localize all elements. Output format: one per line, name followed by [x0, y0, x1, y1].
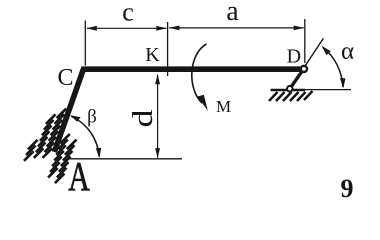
extension line at K: [167, 22, 169, 76]
svg-text:a: a: [226, 0, 239, 27]
svg-text:K: K: [145, 44, 160, 66]
svg-text:d: d: [127, 110, 158, 128]
alpha arc: [322, 46, 346, 89]
beta arc: [70, 115, 101, 158]
hatched wall at A (left band): [24, 109, 66, 161]
ground baseline at A: [67, 158, 182, 160]
extension line at C: [84, 21, 86, 66]
svg-text:D: D: [287, 46, 301, 68]
hatched wall at A (right band): [48, 134, 76, 183]
alpha baseline (thin): [305, 89, 351, 91]
svg-text:C: C: [57, 65, 73, 91]
svg-text:β: β: [87, 107, 97, 128]
dimension line d: [155, 74, 160, 159]
dimension line a: [169, 26, 304, 31]
extension line at D: [304, 19, 306, 63]
svg-text:M: M: [216, 97, 231, 116]
base pin at D support: [286, 85, 294, 93]
svg-text:9: 9: [341, 174, 354, 203]
dimension line c: [86, 26, 167, 31]
ground line at D (thick): [271, 89, 306, 92]
svg-text:c: c: [122, 0, 134, 27]
svg-text:α: α: [341, 38, 354, 65]
link D-base: [290, 69, 304, 89]
pin D: [300, 65, 309, 74]
moment M arc: [192, 44, 208, 111]
beam A-C-D: [54, 69, 303, 152]
hatching at D: [269, 91, 313, 101]
svg-text:A: A: [68, 153, 90, 199]
alpha reference line (link axis extended): [290, 38, 324, 88]
